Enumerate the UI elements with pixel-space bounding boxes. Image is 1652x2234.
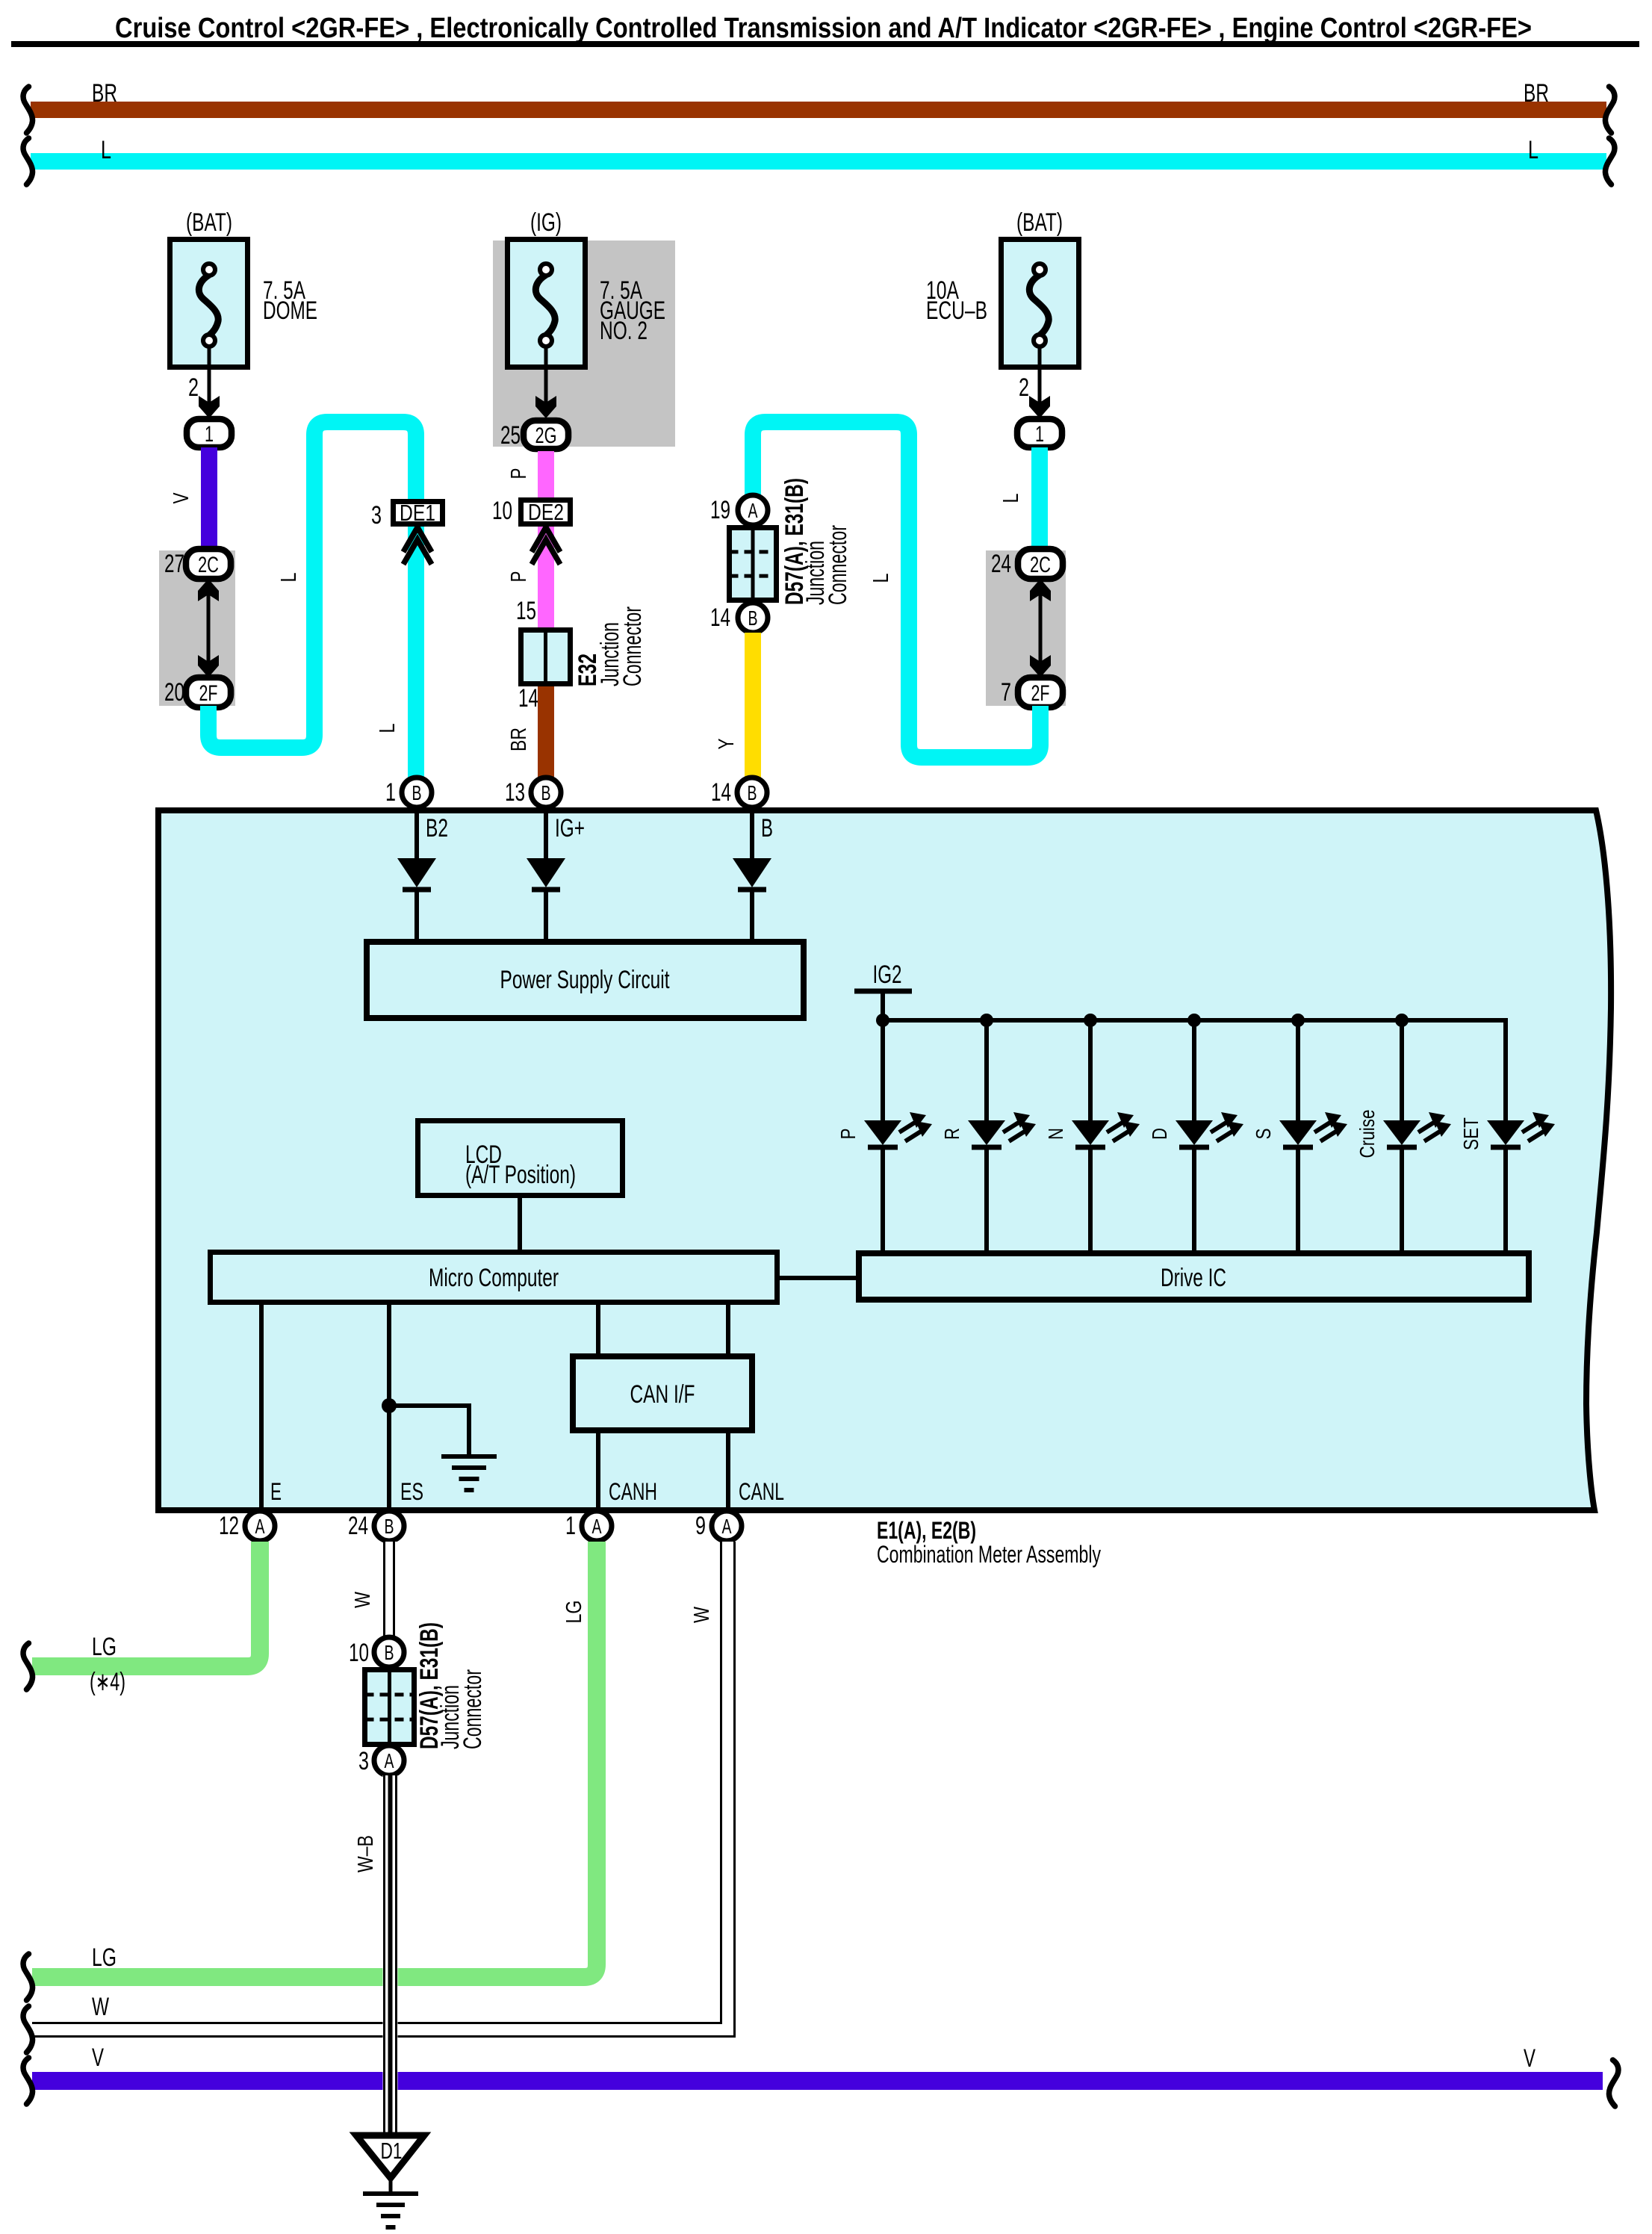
wire W (white) pin 24B to junction 10B: [351, 1542, 397, 1639]
svg-text:L: L: [101, 136, 111, 164]
junction connector E32: [521, 630, 571, 684]
svg-text:B: B: [748, 606, 758, 630]
svg-text:Combination Meter Assembly: Combination Meter Assembly: [877, 1541, 1101, 1568]
meter pin 13 B: [505, 778, 561, 807]
connector oval 1 (DOME): [187, 419, 232, 447]
svg-text:Cruise Control <2GR-FE> , Elec: Cruise Control <2GR-FE> , Electronically…: [115, 13, 1532, 44]
svg-text:(IG): (IG): [530, 208, 562, 237]
svg-text:2F: 2F: [199, 681, 218, 706]
svg-text:BR: BR: [507, 727, 531, 751]
LCD (A/T Position) box: [418, 1121, 623, 1196]
junction dot on LED bus 2: [980, 1014, 993, 1027]
svg-text:(BAT): (BAT): [1016, 208, 1063, 237]
svg-text:L: L: [277, 573, 301, 583]
svg-text:E: E: [270, 1478, 282, 1505]
svg-text:3: 3: [371, 501, 382, 530]
svg-text:3: 3: [358, 1747, 369, 1775]
svg-text:DE2: DE2: [528, 499, 564, 525]
wire BR horizontal bus (brown): [23, 79, 1615, 133]
micro computer box: [211, 1253, 777, 1303]
connector oval 2C pin 27: [164, 549, 231, 579]
junction connector D57(A), E31(B) top: pin 19 A: [710, 495, 768, 525]
svg-text:25: 25: [500, 421, 521, 450]
junction dot on LED bus 3: [1084, 1014, 1097, 1027]
wire V (violet) bottom bus: [23, 2044, 1618, 2106]
label D57(A), E31(B) Junction Connector (top): [780, 478, 852, 605]
junction connector D57(A), E31(B) bottom: pin 10 B: [349, 1637, 404, 1667]
svg-text:Connector: Connector: [824, 525, 852, 605]
svg-text:W–B: W–B: [354, 1835, 378, 1872]
wire L (cyan) DE1 to meter pin 1B: [408, 527, 424, 779]
svg-text:Drive IC: Drive IC: [1161, 1264, 1226, 1292]
svg-text:L: L: [1528, 136, 1538, 164]
wire LG (light green) from pin 12A with (*4): [23, 1542, 260, 1696]
svg-text:LG: LG: [92, 1633, 117, 1661]
svg-text:L: L: [999, 494, 1023, 503]
wire V (violet) DOME fuse to 2C: [170, 447, 209, 550]
svg-text:10: 10: [349, 1639, 369, 1667]
svg-text:Cruise: Cruise: [1356, 1110, 1379, 1158]
chevron marks below DE2: [532, 527, 560, 565]
LED indicator SET: [1459, 1020, 1555, 1250]
wire micro computer to drive IC: [780, 1276, 859, 1280]
double arrow between right 2C and 2F: [1030, 579, 1051, 677]
node IG+ with diode: [527, 807, 585, 940]
svg-text:L: L: [869, 574, 893, 583]
wire P (pink) 2G to DE2: [507, 451, 546, 499]
svg-text:2: 2: [1019, 373, 1029, 402]
LED supply bus: [883, 1018, 1506, 1023]
svg-text:B: B: [541, 781, 551, 804]
wire CANL CAN I/F to pin 9A: [726, 1430, 730, 1511]
fuse 7.5A DOME: [170, 208, 318, 367]
connector DE2 pin 10: [492, 497, 571, 525]
drive IC box: [859, 1253, 1529, 1300]
svg-text:B2: B2: [426, 814, 448, 843]
wire P (pink) DE2 to E32: [538, 527, 554, 629]
svg-text:(BAT): (BAT): [186, 208, 232, 237]
junction dot on LED bus 1: [876, 1014, 889, 1027]
LED indicator S: [1252, 1020, 1347, 1250]
LED indicator R: [940, 1020, 1036, 1250]
gray background behind right 2C/2F connectors: [986, 550, 1066, 706]
junction dot on LED bus 4: [1187, 1014, 1201, 1027]
wire LG (light green) from pin 1A CANH: [23, 1542, 597, 2000]
svg-text:CANH: CANH: [609, 1478, 657, 1505]
meter pin 1 A: [565, 1511, 612, 1541]
svg-text:1: 1: [205, 422, 214, 447]
svg-text:SET: SET: [1459, 1117, 1482, 1150]
svg-text:14: 14: [711, 778, 731, 807]
svg-text:2G: 2G: [535, 423, 557, 448]
svg-text:D: D: [1148, 1128, 1171, 1140]
junction dot on ES wire: [382, 1398, 397, 1413]
meter pin 24 B: [348, 1511, 404, 1541]
ground branch from ES: [389, 1406, 469, 1456]
junction dot on LED bus 6: [1395, 1014, 1409, 1027]
node B with diode: [733, 807, 773, 940]
wire E from micro computer to pin 12A: [259, 1305, 264, 1511]
svg-text:N: N: [1044, 1128, 1067, 1140]
wire BR (brown) E32 to meter pin 13B: [507, 686, 546, 779]
junction connector D57(A), E31(B) bottom: pin 3 A: [358, 1746, 404, 1775]
svg-text:(A/T Position): (A/T Position): [465, 1161, 576, 1189]
svg-text:L: L: [376, 724, 400, 733]
power supply circuit box: [367, 942, 804, 1018]
double arrow between 2C and 2F: [198, 579, 219, 677]
svg-text:V: V: [170, 492, 193, 504]
DOME fuse pin 2 stem and arrow: [188, 346, 220, 418]
connector oval 2G with pin 25: [500, 421, 568, 450]
svg-text:DOME: DOME: [263, 297, 317, 325]
svg-text:9: 9: [695, 1512, 706, 1540]
svg-text:IG2: IG2: [873, 961, 902, 989]
meter pin 1 B: [385, 778, 432, 807]
label E1(A), E2(B) Combination Meter Assembly: [877, 1517, 1101, 1568]
svg-text:LG: LG: [92, 1943, 117, 1972]
svg-text:Micro Computer: Micro Computer: [429, 1264, 559, 1292]
svg-text:P: P: [507, 571, 531, 583]
wire W (white) from pin 9A CANL: [23, 1542, 736, 2053]
internal ground symbol: [441, 1456, 497, 1490]
svg-text:ES: ES: [400, 1478, 423, 1505]
svg-text:2C: 2C: [198, 553, 219, 577]
svg-text:E1(A), E2(B): E1(A), E2(B): [877, 1517, 976, 1544]
svg-text:Connector: Connector: [459, 1669, 487, 1749]
label D57(A), E31(B) Junction Connector (bottom): [415, 1622, 487, 1749]
meter pin 9 A: [695, 1511, 742, 1541]
wire LCD to micro computer: [518, 1198, 522, 1250]
svg-text:10: 10: [492, 497, 512, 525]
wire W-B (white-black) junction 3A to ground D1: [354, 1775, 398, 2132]
connector oval 2F pin 7 (right): [1001, 677, 1063, 707]
LED bus right corner down to SET column: [1503, 1018, 1508, 1020]
svg-text:19: 19: [710, 496, 730, 524]
svg-text:V: V: [92, 2044, 104, 2072]
svg-text:27: 27: [164, 550, 184, 578]
svg-text:2C: 2C: [1030, 553, 1051, 577]
svg-text:A: A: [592, 1515, 602, 1538]
svg-text:B: B: [385, 1515, 394, 1538]
chevron marks below DE1: [403, 527, 432, 565]
gray background behind GAUGE fuse: [493, 241, 675, 447]
svg-text:D1: D1: [381, 2138, 403, 2164]
svg-text:BR: BR: [92, 79, 117, 108]
svg-text:IG+: IG+: [555, 814, 585, 843]
svg-text:1: 1: [565, 1512, 576, 1540]
LED indicator D: [1148, 1020, 1243, 1250]
svg-text:20: 20: [164, 678, 184, 707]
wire Y (yellow) 14B to meter pin 14B: [715, 633, 753, 779]
IG2 power symbol: [854, 961, 912, 1020]
LED indicator P: [836, 1020, 932, 1250]
LED indicator Cruise: [1356, 1020, 1451, 1250]
svg-text:12: 12: [219, 1512, 239, 1540]
svg-text:A: A: [385, 1749, 394, 1772]
svg-text:13: 13: [505, 778, 525, 807]
title underline bar: [11, 41, 1639, 47]
wire ES from micro computer to pin 24B: [387, 1305, 391, 1511]
svg-text:15: 15: [516, 597, 536, 625]
svg-text:B: B: [412, 781, 422, 804]
ECU-B fuse pin 2 stem and arrow: [1019, 346, 1050, 418]
svg-text:Power Supply Circuit: Power Supply Circuit: [500, 966, 670, 994]
svg-text:CANL: CANL: [739, 1478, 784, 1505]
label E32 Junction Connector: [574, 606, 647, 686]
svg-text:W: W: [690, 1606, 714, 1623]
svg-text:A: A: [748, 499, 758, 522]
svg-text:NO. 2: NO. 2: [600, 317, 648, 345]
junction connector D57(A), E31(B) top box: [730, 528, 777, 601]
svg-text:R: R: [940, 1128, 963, 1140]
svg-text:24: 24: [348, 1512, 368, 1540]
svg-text:1: 1: [1035, 422, 1044, 447]
svg-text:2F: 2F: [1031, 681, 1050, 706]
svg-text:P: P: [836, 1129, 860, 1140]
svg-text:P: P: [507, 468, 531, 480]
wire micro computer to CAN I/F left: [596, 1305, 600, 1355]
meter pin 12 A: [219, 1511, 275, 1541]
svg-text:V: V: [1524, 2044, 1535, 2073]
meter pin 14 B: [711, 778, 767, 807]
junction connector D57(A), E31(B) bottom box: [365, 1670, 414, 1745]
svg-text:LG: LG: [562, 1601, 586, 1624]
CAN I/F box: [573, 1356, 752, 1430]
svg-text:Connector: Connector: [618, 606, 647, 686]
wire L horizontal bus (cyan): [23, 136, 1615, 184]
svg-text:W: W: [351, 1591, 375, 1608]
svg-text:2: 2: [188, 373, 199, 402]
svg-text:24: 24: [991, 550, 1011, 578]
connector oval 1 (ECU-B): [1017, 419, 1062, 447]
svg-text:CAN I/F: CAN I/F: [630, 1380, 695, 1409]
ground D1: [356, 2135, 424, 2227]
wire CANH CAN I/F to pin 1A: [596, 1430, 600, 1511]
svg-text:A: A: [255, 1515, 265, 1538]
svg-text:B: B: [748, 781, 757, 804]
svg-text:Y: Y: [715, 739, 739, 750]
wire L (cyan) from right 2F looping to junction 19A: [753, 422, 1040, 757]
wire micro computer to CAN I/F right: [726, 1305, 730, 1355]
fuse 10A ECU-B: [926, 208, 1079, 367]
svg-text:W: W: [92, 1993, 109, 2021]
svg-text:A: A: [722, 1515, 732, 1538]
svg-text:S: S: [1252, 1129, 1275, 1140]
svg-text:B: B: [761, 814, 773, 843]
wire L (cyan) from 2F looping up to DE1: [208, 422, 416, 748]
svg-text:ECU–B: ECU–B: [926, 297, 987, 325]
connector DE1 pin 3: [371, 500, 443, 530]
svg-text:14: 14: [518, 684, 538, 713]
connector oval 2C pin 24 (right): [991, 549, 1063, 579]
GAUGE fuse pin stem and arrow: [535, 346, 556, 418]
connector oval 2F pin 20: [164, 677, 231, 707]
junction dot on LED bus 5: [1291, 1014, 1305, 1027]
node B2 with diode: [397, 807, 448, 940]
svg-text:7: 7: [1001, 678, 1011, 707]
svg-text:BR: BR: [1524, 79, 1549, 108]
LED indicator N: [1044, 1020, 1140, 1250]
svg-text:1: 1: [385, 778, 396, 807]
fuse 7.5A GAUGE NO. 2: [508, 208, 666, 367]
svg-text:(∗4): (∗4): [90, 1668, 125, 1696]
wire L (cyan) ECU-B fuse oval to 2C: [999, 447, 1040, 550]
svg-text:14: 14: [710, 604, 730, 632]
gray background behind left 2C/2F connectors: [159, 550, 235, 706]
svg-text:B: B: [385, 1641, 394, 1664]
combination meter assembly box E1(A), E2(B): [158, 810, 1611, 1510]
junction connector D57(A), E31(B) top: pin 14 B: [710, 603, 768, 633]
